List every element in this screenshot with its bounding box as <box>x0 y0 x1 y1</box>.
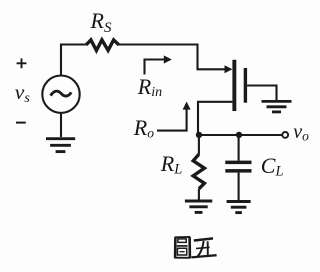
Rin arrow <box>145 55 172 74</box>
label minus (of source) <box>16 122 26 124</box>
wire node to RL <box>198 135 200 155</box>
wire source top to RS <box>61 45 86 77</box>
wire output rail <box>198 134 282 136</box>
svg-text:vo: vo <box>293 121 309 144</box>
svg-text:RS: RS <box>90 8 112 36</box>
caption character 五 <box>191 238 216 257</box>
ground (RL) <box>185 201 212 212</box>
ground (source) <box>46 139 75 152</box>
capacitor CL top plate <box>225 161 251 165</box>
ground (CL) <box>227 202 251 213</box>
ground (gate) <box>262 101 292 112</box>
output terminal circle vo <box>282 132 288 138</box>
svg-text:RL: RL <box>160 151 183 178</box>
resistor RS <box>86 40 119 51</box>
svg-text:Ro: Ro <box>133 115 154 141</box>
label + (plus of source) <box>17 58 27 68</box>
wire node to CL <box>238 135 240 161</box>
transistor M1 channel bar <box>232 60 236 111</box>
node CL junction dot <box>236 132 242 138</box>
wire RS to gate corner down to transistor source <box>119 45 225 70</box>
caption character 圖 <box>174 237 190 258</box>
svg-text:CL: CL <box>261 153 284 180</box>
Ro arrow <box>157 102 191 131</box>
wire drain to output node <box>198 102 232 135</box>
transistor M1 gate bar <box>244 68 247 103</box>
svg-text:vs: vs <box>15 80 31 106</box>
capacitor CL bottom plate <box>225 169 251 173</box>
voltage source vs <box>42 76 79 113</box>
svg-text:Rin: Rin <box>137 74 162 100</box>
wire RL to ground <box>198 189 200 200</box>
node drain junction dot <box>196 132 202 138</box>
source arrowhead of transistor <box>225 65 233 73</box>
wire CL to ground <box>238 173 240 201</box>
resistor RL <box>193 154 204 189</box>
wire gate to ground <box>247 86 276 101</box>
wire source bottom to ground <box>60 113 62 137</box>
